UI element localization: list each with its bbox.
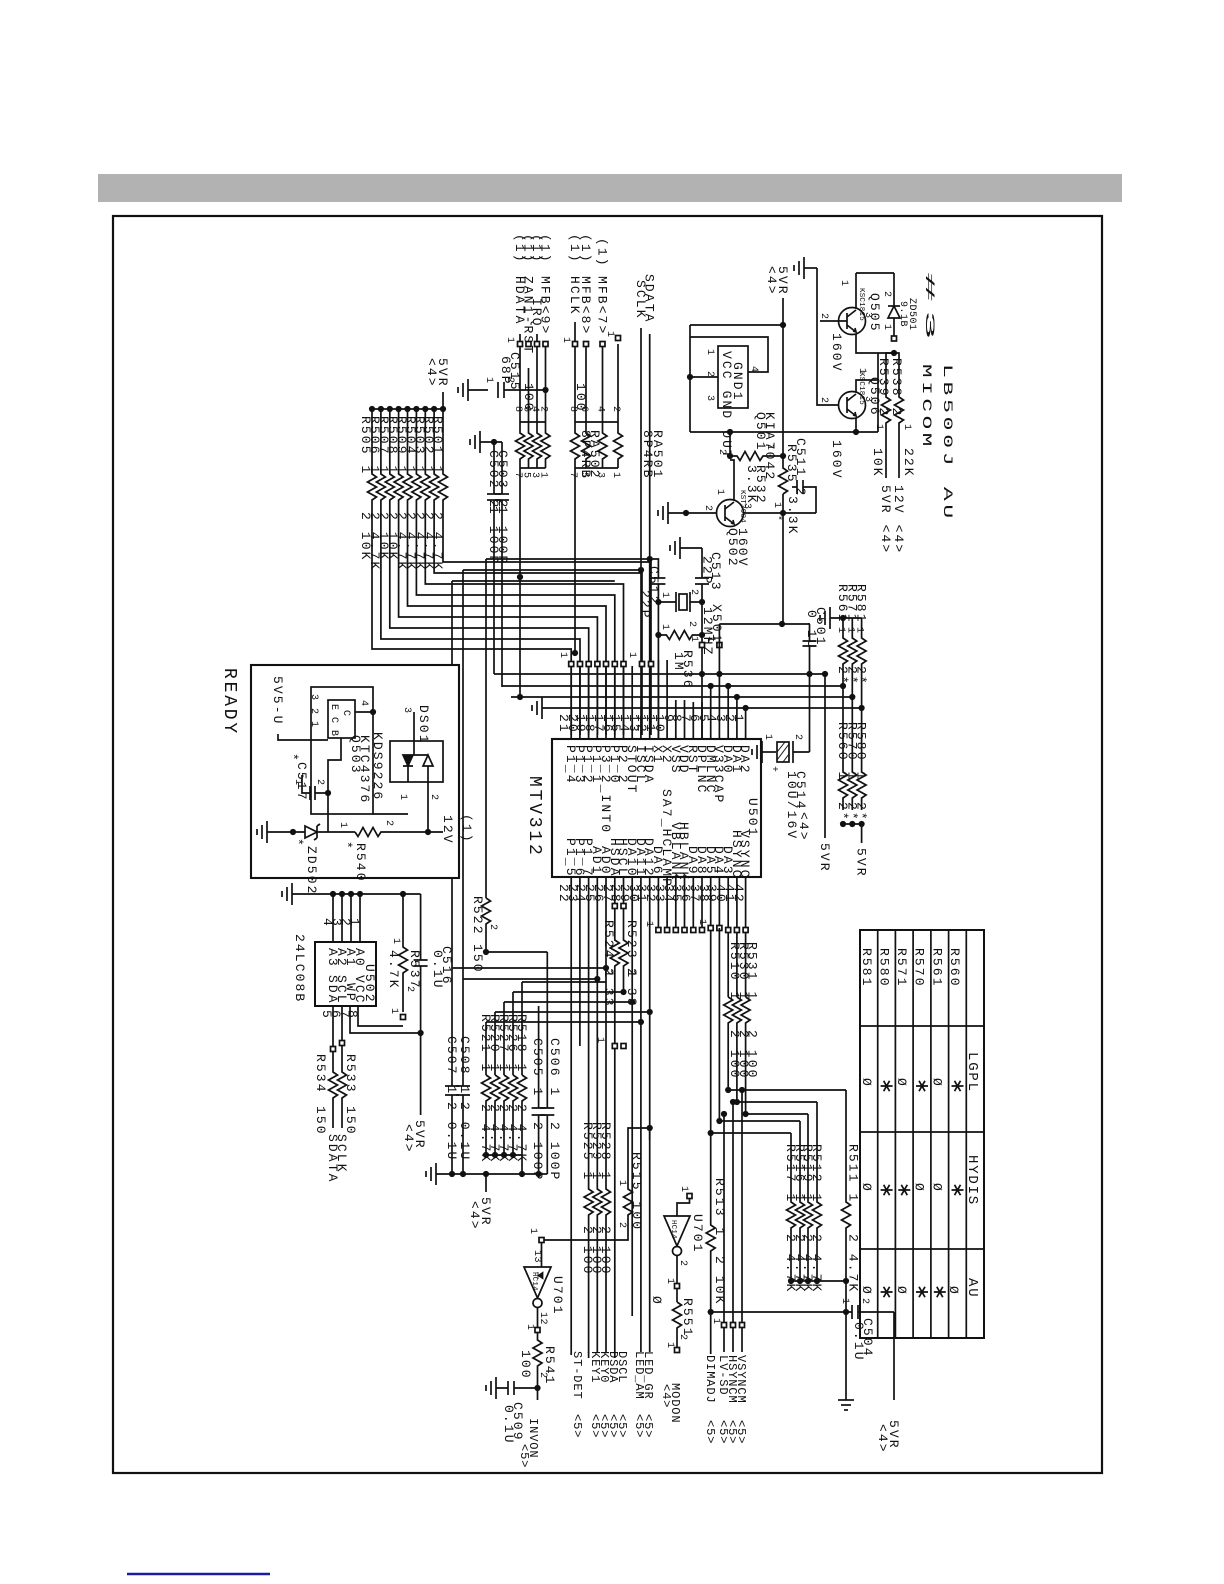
svg-text:R580 1: R580 1	[854, 722, 869, 781]
wire collector bus y432	[690, 431, 878, 433]
resistor R536 1M	[658, 631, 705, 640]
svg-text:2: 2	[677, 1260, 688, 1267]
svg-text:LGPL: LGPL	[964, 1052, 980, 1093]
svg-text:2 100: 2 100	[745, 1030, 760, 1080]
svg-text:2: 2	[859, 1298, 870, 1305]
svg-text:150: 150	[313, 1106, 328, 1136]
svg-text:1: 1	[557, 652, 568, 659]
svg-text:1: 1	[560, 337, 571, 344]
wire 5VR stem	[442, 392, 444, 409]
ground VSS bus	[541, 697, 543, 719]
svg-text:<5>: <5>	[641, 1414, 655, 1438]
svg-text:1: 1	[901, 424, 912, 431]
svg-text:R511 1: R511 1	[846, 1144, 861, 1203]
svg-text:1: 1	[626, 652, 637, 659]
svg-text:3: 3	[308, 694, 319, 701]
svg-text:2: 2	[428, 794, 439, 801]
svg-text:3.3K: 3.3K	[785, 496, 800, 536]
svg-text:2: 2	[686, 621, 697, 628]
svg-text:<5>: <5>	[615, 1414, 629, 1438]
svg-text:Ø: Ø	[912, 1183, 927, 1193]
transistor Q503 inner box	[328, 700, 355, 738]
node LV-SD	[723, 1114, 725, 1352]
pin pad 1 HDATA	[518, 342, 523, 347]
wire HCLK	[574, 322, 576, 422]
resistor R510 100	[724, 997, 733, 1090]
resistor R512	[813, 1102, 822, 1278]
wire pin39 row	[719, 928, 800, 1121]
zener ZD502	[305, 824, 320, 840]
svg-text:1: 1	[610, 472, 621, 479]
resistor R505	[368, 409, 572, 735]
svg-text:Ø: Ø	[894, 1286, 909, 1296]
resistor R541 100	[533, 1333, 542, 1388]
wire Q503 base down	[328, 738, 341, 832]
svg-text:P1_4: P1_4	[563, 745, 578, 785]
svg-text:2: 2	[881, 291, 892, 298]
resistor R560	[839, 686, 848, 810]
wire Q502 collector	[730, 460, 734, 500]
wire R522 to C506 column	[486, 951, 547, 953]
wire SDATA vertical	[649, 334, 651, 716]
wire pin7 to C516	[350, 1006, 421, 1033]
junction C503	[491, 439, 497, 445]
svg-text:1: 1	[538, 472, 549, 479]
svg-text:2*: 2*	[854, 802, 869, 822]
svg-text:1: 1	[397, 794, 408, 801]
zener ZD501	[893, 273, 895, 306]
node 5VR left	[824, 674, 826, 838]
transistor Q505	[839, 308, 866, 335]
junction RA502 stem	[519, 480, 521, 577]
svg-text:12V: 12V	[440, 815, 455, 845]
svg-text:<5>: <5>	[570, 1414, 584, 1438]
svg-text:DS01: DS01	[416, 705, 431, 745]
svg-text:22P: 22P	[638, 590, 653, 620]
svg-text:*: *	[290, 838, 305, 848]
resistor R507	[385, 409, 588, 735]
svg-text:MICOM: MICOM	[919, 364, 934, 450]
wire SCLK vertical	[640, 328, 642, 716]
wire RA502 stem lower	[519, 577, 521, 697]
resistor R525	[584, 1180, 593, 1353]
svg-text:LED_GR: LED_GR	[641, 1351, 655, 1400]
svg-text:2 4.7K: 2 4.7K	[809, 1234, 824, 1293]
ground at C513	[679, 537, 681, 559]
wire 5VR long vertical	[782, 325, 784, 624]
wire pin8 to R537	[358, 1006, 403, 1026]
svg-text:Ø: Ø	[946, 1286, 961, 1296]
svg-text:R513 1: R513 1	[712, 1178, 727, 1237]
resistor R509	[403, 409, 606, 735]
svg-text:2: 2	[537, 1372, 548, 1379]
svg-text:1: 1	[764, 444, 775, 451]
svg-text:1: 1	[762, 734, 773, 741]
junction row 4.7K group	[483, 1152, 489, 1158]
IC U501 bottom pin stubs	[571, 877, 745, 1355]
pin pad MFB9	[543, 342, 548, 347]
wire y686 horizontal	[502, 685, 843, 687]
resistor R534	[329, 1006, 338, 1128]
svg-text:(1): (1)	[578, 234, 593, 264]
wire y697 horizontal	[511, 696, 852, 698]
svg-text:MFB<9>: MFB<9>	[538, 276, 553, 335]
transistor Q506	[839, 392, 866, 419]
svg-text:R540: R540	[353, 843, 368, 883]
ground G1 top	[803, 257, 805, 279]
svg-text:Ø: Ø	[894, 1078, 909, 1088]
svg-text:4.7K: 4.7K	[386, 950, 401, 990]
wire left bank top bus	[372, 408, 443, 410]
junction pin6 column	[699, 671, 705, 677]
svg-text:1: 1	[483, 377, 494, 384]
svg-text:9.1B: 9.1B	[897, 301, 908, 327]
resistor R527	[500, 1075, 509, 1155]
svg-text:100: 100	[518, 1350, 533, 1380]
svg-text:+: +	[768, 766, 779, 773]
svg-text:2 100: 2 100	[598, 1226, 613, 1276]
svg-text:100: 100	[521, 383, 536, 413]
svg-text:1: 1	[524, 1324, 535, 1331]
wire pin5 drop	[710, 686, 712, 702]
node 5VR right	[861, 824, 863, 843]
capacitor C505	[532, 1006, 546, 1174]
svg-text:ZD502: ZD502	[304, 846, 319, 896]
svg-text:42: 42	[731, 884, 746, 904]
node 5VR (4) bottom right	[893, 1312, 895, 1400]
svg-text:#3: #3	[922, 272, 937, 348]
svg-text:*: *	[339, 841, 354, 851]
svg-text:4: 4	[358, 700, 369, 707]
capacitor C502	[501, 442, 503, 494]
table HYDIS entries	[859, 1183, 964, 1195]
svg-text:3: 3	[704, 395, 715, 402]
svg-text:VSYNC: VSYNC	[737, 830, 752, 880]
junction R536 right	[699, 632, 705, 638]
resistor R538 22K	[894, 353, 904, 478]
svg-text:C506 1: C506 1	[547, 1038, 562, 1097]
svg-text:U502: U502	[362, 964, 377, 1004]
svg-text:1: 1	[854, 627, 865, 634]
IC U501 top pin names	[563, 745, 752, 834]
svg-text:5V5-U: 5V5-U	[270, 676, 285, 726]
svg-text:1: 1	[696, 919, 707, 926]
IC Q501 KIA7042 body	[718, 346, 748, 408]
svg-text:2: 2	[677, 1334, 688, 1341]
svg-text:E C B: E C B	[328, 704, 339, 737]
svg-text:HC14: HC14	[530, 1272, 538, 1291]
svg-text:KSC1815: KSC1815	[857, 288, 865, 321]
pin pad ZAN1-RST	[526, 342, 531, 347]
resistor R522 150	[482, 898, 491, 951]
resistor R580	[857, 708, 866, 810]
capacitor C513	[695, 548, 709, 739]
svg-text:C517: C517	[294, 762, 309, 802]
node VSYNCM	[741, 1090, 743, 1352]
svg-text:5VR: 5VR	[817, 843, 832, 873]
resistor R517	[787, 1133, 796, 1278]
junction at MFB9/C515	[542, 387, 548, 393]
wire Q506 emitter	[855, 418, 857, 432]
capacitor C514 electrolytic	[777, 742, 789, 762]
resistor R511	[842, 1090, 851, 1278]
resistor R501	[439, 409, 652, 735]
svg-text:GND1: GND1	[730, 362, 745, 402]
svg-text:1: 1	[504, 337, 515, 344]
svg-text:2: 2	[538, 406, 549, 413]
wire ZAN1-RST	[528, 368, 530, 422]
IC U502 24LC08B body	[315, 942, 376, 1006]
svg-text:5: 5	[319, 1010, 334, 1020]
node 5VR (4) bottom bus	[485, 1174, 487, 1192]
node LED_GR	[649, 1128, 651, 1352]
svg-text:R512 1: R512 1	[809, 1144, 824, 1203]
svg-text:Ø: Ø	[930, 1183, 945, 1193]
IC U501 top pin stubs	[571, 660, 745, 739]
junction R561 top	[840, 615, 846, 621]
pin pads under U501	[612, 904, 617, 909]
svg-text:0.1U: 0.1U	[430, 950, 445, 990]
svg-text:7: 7	[567, 472, 578, 479]
svg-text:1: 1	[388, 1008, 399, 1015]
resistor R533	[338, 1006, 347, 1128]
wire G1 to Q506 base	[817, 268, 839, 405]
junction crystal right	[699, 599, 705, 605]
resistor network RA502 elements	[516, 422, 525, 468]
svg-text:6: 6	[578, 406, 589, 413]
svg-text:R528 1: R528 1	[598, 1122, 613, 1181]
svg-text:1: 1	[664, 1278, 675, 1285]
svg-text:160V: 160V	[735, 528, 750, 568]
resistor R524 33	[610, 908, 619, 1358]
svg-text:R538 2: R538 2	[889, 358, 904, 417]
wire EEPROM top bus	[292, 893, 421, 895]
resistor R581	[857, 618, 866, 708]
wire Q503 pin4	[355, 711, 373, 713]
svg-text:2 0.1U: 2 0.1U	[444, 1102, 459, 1161]
pin pad crystal col	[700, 643, 705, 648]
transistor Q503 KDS9226 outer box	[311, 687, 373, 814]
svg-text:1: 1	[705, 636, 716, 643]
svg-text:2: 2	[702, 505, 713, 512]
svg-text:2: 2	[688, 589, 699, 596]
svg-text:2: 2	[487, 924, 498, 931]
schematic border frame	[113, 216, 1102, 1473]
resistor R551	[673, 1302, 682, 1350]
svg-text:1: 1	[881, 324, 892, 331]
svg-text:Ø: Ø	[859, 1078, 874, 1088]
svg-text:2: 2	[504, 377, 515, 384]
svg-text:12: 12	[537, 1312, 548, 1325]
svg-text:1: 1	[390, 938, 401, 945]
svg-text:1: 1	[714, 489, 725, 496]
svg-text:1: 1	[594, 1037, 605, 1044]
resistor R526	[509, 1075, 518, 1155]
svg-text:1: 1	[704, 349, 715, 356]
svg-text:1: 1	[839, 1298, 850, 1305]
capacitor C501	[803, 624, 817, 674]
ground bottom bus	[435, 1163, 437, 1185]
svg-text:U701: U701	[690, 1214, 705, 1254]
wire X1 column	[657, 602, 659, 739]
svg-text:1: 1	[347, 918, 362, 928]
svg-text:1: 1	[664, 1342, 675, 1349]
svg-text:<5>: <5>	[703, 1420, 717, 1444]
svg-text:5VR: 5VR	[854, 848, 869, 878]
svg-text:8P4RB: 8P4RB	[640, 430, 655, 480]
resistor R519	[804, 1114, 813, 1278]
wire KIA7042 pin4 loop	[690, 337, 768, 372]
wire MFB9	[545, 344, 547, 422]
resistor R570	[848, 697, 857, 810]
svg-text:2: 2	[716, 449, 727, 456]
svg-text:R518 1: R518 1	[514, 1014, 529, 1073]
capacitor C517	[302, 775, 328, 800]
resistor R506	[376, 409, 580, 735]
svg-text:SDATA: SDATA	[325, 1134, 340, 1184]
resistor R571	[848, 618, 857, 697]
svg-text:<4>: <4>	[659, 1384, 673, 1408]
resistor network RA502 bottom bus	[520, 467, 546, 469]
options table frame	[860, 930, 984, 1338]
svg-text:1: 1	[678, 1186, 689, 1193]
diode DS01 right element	[414, 755, 433, 782]
wire U502 bottom pins	[319, 1010, 360, 1020]
table AU entries	[859, 1286, 961, 1297]
svg-text:2 100P: 2 100P	[547, 1122, 562, 1181]
svg-text:150: 150	[343, 1106, 358, 1136]
resistor R531 100	[741, 997, 750, 1114]
resistor R540	[355, 828, 443, 837]
svg-text:R561: R561	[930, 948, 945, 988]
capacitor C507	[445, 1086, 459, 1174]
svg-text:1M: 1M	[671, 652, 686, 672]
wire C508 vertical	[462, 570, 464, 1086]
transistor Q502	[717, 500, 744, 527]
crystal X501 12MHZ	[658, 592, 702, 612]
wire y624 horizontal	[719, 623, 809, 625]
svg-text:2 0.1U: 2 0.1U	[457, 1102, 472, 1161]
wire V33CAP column	[718, 624, 720, 716]
wire MFB8	[585, 344, 587, 422]
svg-text:2: 2	[792, 734, 803, 741]
wire C507 vertical	[451, 581, 453, 1086]
resistor R508	[394, 409, 597, 735]
svg-text:DIMADJ: DIMADJ	[703, 1355, 717, 1404]
svg-text:R533: R533	[343, 1054, 358, 1094]
ground EEPROM bus	[291, 883, 293, 905]
svg-text:2 10K: 2 10K	[358, 512, 373, 562]
svg-text:10K: 10K	[870, 448, 885, 478]
svg-text:R522: R522	[470, 896, 485, 936]
wire pin38 row	[711, 930, 791, 1133]
wire R522 vertical	[485, 559, 487, 898]
wire pin2 drop	[736, 697, 738, 716]
svg-text:<4>: <4>	[796, 812, 811, 842]
svg-text:5: 5	[578, 472, 589, 479]
resistor R521	[482, 1075, 491, 1155]
wire Q505 collector top	[856, 273, 894, 308]
svg-text:KDS9226: KDS9226	[370, 732, 385, 801]
wire I2C pullup horizontals	[452, 967, 606, 969]
svg-text:0.1U: 0.1U	[804, 610, 819, 650]
svg-text:DSCL: DSCL	[615, 1351, 629, 1383]
svg-text:R531 1: R531 1	[745, 942, 760, 1001]
wire Q506 collector	[856, 353, 878, 432]
ground at C501	[829, 607, 831, 629]
svg-text:R541: R541	[542, 1346, 557, 1386]
svg-text:(1): (1)	[538, 234, 553, 264]
svg-text:<4>: <4>	[401, 1124, 416, 1154]
wire I2C SCLK horizontal	[463, 569, 641, 571]
svg-text:1: 1	[659, 592, 670, 599]
svg-text:1: 1	[337, 822, 348, 829]
table refs column	[859, 948, 962, 988]
svg-text:3: 3	[401, 707, 412, 714]
svg-text:12V <4>: 12V <4>	[891, 485, 906, 554]
svg-text:2: 2	[818, 397, 829, 404]
junction RA501 stem	[574, 480, 576, 653]
svg-text:0.1U: 0.1U	[501, 1405, 516, 1445]
svg-text:160V: 160V	[829, 333, 844, 373]
svg-text:KTC4376: KTC4376	[357, 735, 372, 804]
wire pin3 drop	[727, 686, 729, 716]
resistor R502	[430, 409, 642, 735]
svg-text:12MHZ: 12MHZ	[700, 607, 715, 657]
wire DA staircase	[486, 982, 650, 1075]
IC U501 MTV312 body	[552, 739, 761, 877]
resistor R518	[518, 1075, 527, 1155]
wire KIA7042 left rail	[689, 325, 691, 432]
svg-text:<4>: <4>	[875, 1424, 890, 1454]
pin pads HCLK group	[573, 342, 578, 347]
svg-text:Ø: Ø	[930, 1078, 945, 1088]
IC U501 bottom pin numbers	[556, 884, 746, 904]
resistor network RA501 bottom bus	[575, 467, 618, 469]
wire pin1 drop	[745, 708, 747, 716]
resistor R529	[593, 1180, 602, 1353]
wire pin40 row	[728, 1089, 846, 1091]
svg-text:C505 1: C505 1	[530, 1038, 545, 1097]
resistor R530 100	[732, 997, 741, 1102]
junction R536 left	[655, 632, 661, 638]
svg-text:2: 2	[308, 708, 319, 715]
svg-text:READY: READY	[219, 668, 239, 736]
svg-text:Ø: Ø	[649, 1296, 664, 1306]
svg-text:1: 1	[643, 921, 654, 928]
svg-text:1: 1	[688, 636, 699, 643]
svg-text:SDA: SDA	[325, 975, 340, 1005]
ground at C515	[467, 379, 469, 401]
resistor network RA502 top bus	[520, 421, 546, 423]
resistor R532 element	[779, 456, 788, 494]
svg-text:2: 2	[818, 313, 829, 320]
wire HDATA	[519, 334, 521, 422]
svg-text:Q505: Q505	[867, 293, 882, 333]
IC U501 bottom pin names	[563, 789, 752, 888]
svg-text:0.1U: 0.1U	[851, 1322, 866, 1362]
wire 5V5-U to Q503	[278, 734, 328, 740]
capacitor C516	[414, 894, 428, 1115]
svg-text:1 100P: 1 100P	[486, 506, 501, 565]
capacitor C504	[711, 1305, 894, 1319]
svg-text:1: 1	[616, 1180, 627, 1187]
capacitor C506	[540, 952, 554, 1174]
svg-text:2: 2	[383, 820, 394, 827]
resistor R513 10K	[706, 1133, 715, 1354]
svg-text:HC14: HC14	[669, 1220, 677, 1239]
resistor network RA501 top bus	[575, 421, 618, 423]
